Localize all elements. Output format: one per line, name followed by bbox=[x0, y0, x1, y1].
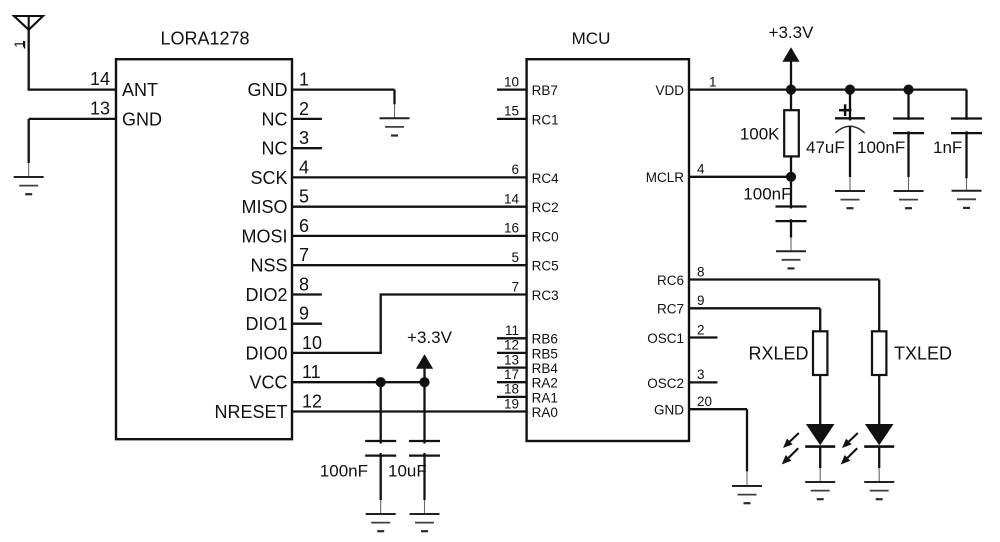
capacitor 1nF plates bbox=[951, 119, 982, 134]
MCU pin name RB7 (10) bbox=[532, 83, 558, 98]
svg-text:10: 10 bbox=[504, 74, 519, 89]
svg-text:RB6: RB6 bbox=[532, 332, 558, 347]
svg-text:3: 3 bbox=[697, 367, 705, 382]
wire MISO to RC2 bbox=[292, 206, 527, 208]
LORA pin name MOSI (6) bbox=[241, 226, 287, 246]
MCU pin number 19 bbox=[504, 396, 519, 411]
MCU pin name OSC2 (3) bbox=[647, 376, 684, 391]
svg-text:MCLR: MCLR bbox=[646, 170, 685, 185]
MCU pin number 4 bbox=[697, 162, 705, 177]
LORA pin number 4 bbox=[299, 157, 309, 177]
svg-text:+3.3V: +3.3V bbox=[407, 328, 453, 347]
MCU pin number 8 bbox=[697, 264, 705, 279]
LORA pin name DIO1 (9) bbox=[245, 314, 287, 334]
MCU pin name GND (20) bbox=[654, 403, 684, 418]
lead 10uF to ground bbox=[423, 453, 425, 514]
wire NSS to RC5 bbox=[292, 264, 527, 266]
value label 100nF (MCLR) bbox=[743, 184, 791, 203]
resistor R 100K bbox=[784, 90, 799, 177]
value label TXLED bbox=[894, 343, 952, 363]
LORA pin name MISO (5) bbox=[241, 197, 287, 217]
svg-text:1: 1 bbox=[709, 74, 717, 89]
LORA pin name GND (13) bbox=[122, 109, 162, 129]
lead MCLR to 100nF cap bbox=[790, 177, 792, 209]
junction VCC/100nF bbox=[376, 377, 386, 387]
svg-text:17: 17 bbox=[504, 367, 519, 382]
svg-text:RC5: RC5 bbox=[532, 259, 559, 274]
LORA pin name ANT bbox=[122, 80, 158, 100]
value label 47uF bbox=[806, 138, 845, 157]
value label 100K bbox=[740, 125, 780, 144]
MCU pin number 16 bbox=[504, 221, 519, 236]
resistor RXLED current-limit bbox=[813, 331, 827, 375]
LED TXLED bbox=[841, 375, 895, 482]
junction MCLR bbox=[786, 172, 796, 182]
svg-text:3: 3 bbox=[299, 128, 309, 148]
svg-text:GND: GND bbox=[654, 403, 684, 418]
svg-text:12: 12 bbox=[302, 392, 322, 412]
MCU pin number 6 bbox=[511, 162, 519, 177]
stub MCU pin 13 RB4 bbox=[497, 366, 527, 368]
LORA pin number 10 bbox=[302, 333, 322, 353]
lead 100nF rail to ground bbox=[907, 131, 909, 191]
MCU pin number 7 bbox=[511, 279, 519, 294]
MCU pin number 12 bbox=[504, 338, 519, 353]
wire RC7 to RXLED resistor bbox=[689, 308, 820, 331]
svg-text:9: 9 bbox=[299, 304, 309, 324]
svg-text:RXLED: RXLED bbox=[748, 343, 808, 363]
svg-text:NSS: NSS bbox=[250, 256, 287, 276]
stub MCU pin 3 OSC2 bbox=[689, 381, 718, 383]
wire LORA GND pin 13 to ground bbox=[29, 119, 116, 177]
svg-text:8: 8 bbox=[697, 264, 705, 279]
MCU pin number 2 bbox=[697, 322, 705, 337]
svg-text:13: 13 bbox=[90, 99, 110, 119]
MCU pin name RC1 (15) bbox=[532, 112, 559, 127]
LORA pin number 9 bbox=[299, 304, 309, 324]
wire MOSI to RC0 bbox=[292, 235, 527, 237]
svg-text:2: 2 bbox=[697, 322, 705, 337]
LORA pin number 6 bbox=[299, 216, 309, 236]
resistor TXLED current-limit bbox=[872, 331, 886, 375]
LORA pin name DIO0 (10) bbox=[245, 343, 287, 363]
svg-text:100nF: 100nF bbox=[857, 138, 905, 157]
LORA pin number 2 bbox=[299, 99, 309, 119]
IC MCU body bbox=[527, 59, 689, 441]
svg-text:RC0: RC0 bbox=[532, 229, 559, 244]
svg-text:RB4: RB4 bbox=[532, 361, 559, 376]
stub MCU pin 12 RB5 bbox=[497, 352, 527, 354]
LORA pin name NRESET (12) bbox=[214, 402, 287, 422]
svg-text:NRESET: NRESET bbox=[214, 402, 287, 422]
junction VDD/47uF bbox=[845, 85, 855, 95]
svg-text:MOSI: MOSI bbox=[241, 226, 287, 246]
wire DIO0 to RC3 bbox=[292, 295, 527, 355]
LORA pin name NSS (7) bbox=[250, 256, 287, 276]
wire MCU GND pin 20 to ground bbox=[689, 409, 747, 486]
MCU pin name RA0 (19) bbox=[532, 405, 558, 420]
svg-text:14: 14 bbox=[90, 69, 110, 89]
MCU pin name RC2 (14) bbox=[532, 200, 559, 215]
LORA pin number 11 bbox=[302, 362, 321, 382]
lead VCC to 10uF bbox=[423, 382, 425, 443]
capacitor 100nF (MCLR) bbox=[776, 207, 807, 222]
svg-text:13: 13 bbox=[504, 352, 519, 367]
svg-text:RC3: RC3 bbox=[532, 288, 559, 303]
MCU pin number 10 bbox=[504, 74, 519, 89]
svg-text:DIO0: DIO0 bbox=[245, 343, 287, 363]
capacitor 100nF (VCC decoupling) bbox=[365, 441, 396, 456]
svg-text:RB5: RB5 bbox=[532, 346, 558, 361]
ground (1nF) bbox=[952, 191, 982, 208]
LORA pin number 12 bbox=[302, 392, 322, 412]
ground (47uF) bbox=[835, 191, 865, 208]
svg-text:11: 11 bbox=[505, 323, 519, 338]
svg-text:4: 4 bbox=[697, 162, 705, 177]
svg-text:RA1: RA1 bbox=[532, 390, 558, 405]
svg-text:5: 5 bbox=[299, 187, 309, 207]
power +3.3V (VDD rail) bbox=[769, 23, 815, 62]
stub LORA pin 8 DIO2 bbox=[292, 293, 322, 295]
svg-text:20: 20 bbox=[697, 394, 712, 409]
svg-text:16: 16 bbox=[504, 221, 519, 236]
svg-text:100K: 100K bbox=[740, 125, 780, 144]
MCU pin number 15 bbox=[504, 104, 519, 119]
svg-text:4: 4 bbox=[299, 157, 309, 177]
MCU pin name RC6 (8) bbox=[657, 273, 684, 288]
ground (100nF) bbox=[366, 514, 396, 531]
svg-text:OSC1: OSC1 bbox=[647, 331, 684, 346]
svg-text:MCU: MCU bbox=[572, 29, 611, 48]
ground (RXLED) bbox=[805, 482, 835, 499]
capacitor 100nF (VDD rail) bbox=[907, 90, 909, 120]
stub MCU pin 18 RA1 bbox=[497, 396, 527, 398]
value label 1nF bbox=[933, 138, 962, 157]
junction VCC/10uF bbox=[419, 377, 429, 387]
LORA pin number 8 bbox=[299, 275, 309, 295]
MCU pin number 1 bbox=[709, 74, 717, 89]
wire MCLR to 100K/100nF bbox=[689, 176, 791, 178]
value label 10uF bbox=[388, 462, 427, 481]
stub MCU pin 11 RB6 bbox=[497, 337, 527, 339]
LORA pin name NC (2) bbox=[262, 109, 288, 129]
MCU pin number 3 bbox=[697, 367, 705, 382]
svg-text:100nF: 100nF bbox=[743, 184, 791, 203]
svg-text:9: 9 bbox=[697, 293, 705, 308]
wire VDD rail bbox=[689, 90, 967, 120]
MCU pin name RC0 (16) bbox=[532, 229, 559, 244]
wire +3.3V arrow stem bbox=[423, 368, 425, 382]
MCU pin number 13 bbox=[504, 352, 519, 367]
svg-text:GND: GND bbox=[122, 109, 162, 129]
svg-text:7: 7 bbox=[299, 245, 309, 265]
MCU pin name RC3 (7) bbox=[532, 288, 559, 303]
svg-text:6: 6 bbox=[511, 162, 519, 177]
MCU pin number 18 bbox=[504, 382, 519, 397]
pin number 13 bbox=[90, 99, 110, 119]
MCU pin name MCLR (4) bbox=[646, 170, 685, 185]
wire NRESET to RA0 bbox=[292, 410, 527, 412]
MCU pin name RB4 (13) bbox=[532, 361, 559, 376]
MCU pin number 14 bbox=[504, 192, 520, 207]
svg-text:DIO2: DIO2 bbox=[245, 285, 287, 305]
LORA pin name DIO2 (8) bbox=[245, 285, 287, 305]
MCU pin name RC7 (9) bbox=[657, 302, 684, 317]
LORA pin name SCK (4) bbox=[250, 168, 287, 188]
svg-text:19: 19 bbox=[504, 396, 519, 411]
capacitor 100nF plates bbox=[893, 119, 924, 134]
stub MCU pin 15 RC1 bbox=[497, 118, 527, 120]
MCU pin name RB6 (11) bbox=[532, 332, 558, 347]
LORA pin name GND (1) bbox=[248, 80, 288, 100]
svg-text:GND: GND bbox=[248, 80, 288, 100]
svg-text:LORA1278: LORA1278 bbox=[160, 29, 249, 49]
antenna pin number 1 (rotated) bbox=[11, 40, 27, 48]
value label RXLED bbox=[748, 343, 808, 363]
MCU pin name RB5 (12) bbox=[532, 346, 558, 361]
MCU pin name RA1 (18) bbox=[532, 390, 558, 405]
svg-text:SCK: SCK bbox=[250, 168, 287, 188]
lead 1nF to ground bbox=[965, 131, 967, 190]
stub MCU pin 2 OSC1 bbox=[689, 336, 718, 338]
svg-text:1nF: 1nF bbox=[933, 138, 962, 157]
stub LORA pin 3 NC bbox=[292, 147, 322, 149]
svg-text:RC4: RC4 bbox=[532, 171, 559, 186]
svg-text:8: 8 bbox=[299, 275, 309, 295]
MCU pin name RC4 (6) bbox=[532, 171, 559, 186]
MCU pin name RA2 (17) bbox=[532, 376, 558, 391]
LORA pin name NC (3) bbox=[262, 139, 288, 159]
MCU pin number 9 bbox=[697, 293, 705, 308]
svg-text:1: 1 bbox=[299, 70, 309, 90]
svg-text:RB7: RB7 bbox=[532, 83, 558, 98]
wire SCK to RC4 bbox=[292, 176, 527, 178]
junction VDD/100K bbox=[786, 85, 796, 95]
svg-text:47uF: 47uF bbox=[806, 138, 845, 157]
svg-text:RC6: RC6 bbox=[657, 273, 684, 288]
stub LORA pin 2 NC bbox=[292, 118, 322, 120]
wire VCC (LORA pin 11) bbox=[292, 381, 425, 383]
ground (MCLR cap) bbox=[776, 251, 806, 268]
wire antenna to LORA ANT pin 14 bbox=[28, 29, 116, 90]
capacitor 10uF (VCC decoupling) bbox=[409, 441, 440, 456]
ground (10uF) bbox=[410, 514, 440, 531]
ground (rail 100nF) bbox=[894, 191, 924, 208]
capacitor 47uF (polarized) bbox=[835, 90, 865, 191]
LORA pin number 7 bbox=[299, 245, 309, 265]
MCU pin name VDD (1) bbox=[655, 83, 684, 98]
MCU pin name RC5 (5) bbox=[532, 259, 559, 274]
antenna bbox=[14, 16, 43, 30]
svg-text:VCC: VCC bbox=[249, 373, 287, 393]
ground (MCU GND) bbox=[732, 486, 762, 503]
svg-text:NC: NC bbox=[262, 109, 288, 129]
svg-text:+3.3V: +3.3V bbox=[769, 23, 815, 42]
MCU pin name OSC1 (2) bbox=[647, 331, 684, 346]
LORA pin number 3 bbox=[299, 128, 309, 148]
svg-text:14: 14 bbox=[504, 192, 520, 207]
LORA pin name VCC (11) bbox=[249, 373, 287, 393]
svg-text:5: 5 bbox=[511, 250, 519, 265]
lead 100nF (MCLR) to ground bbox=[790, 219, 792, 251]
ground (antenna GND) bbox=[14, 177, 44, 194]
svg-text:RA0: RA0 bbox=[532, 405, 558, 420]
value label 100nF (rail) bbox=[857, 138, 905, 157]
stub LORA pin 9 DIO1 bbox=[292, 323, 322, 325]
svg-text:RC2: RC2 bbox=[532, 200, 559, 215]
svg-text:10: 10 bbox=[302, 333, 322, 353]
ground (TXLED) bbox=[864, 482, 894, 499]
lead 100nF to ground bbox=[380, 453, 382, 514]
svg-text:11: 11 bbox=[302, 362, 321, 382]
svg-text:RA2: RA2 bbox=[532, 376, 558, 391]
svg-text:2: 2 bbox=[299, 99, 309, 119]
MCU pin number 17 bbox=[504, 367, 519, 382]
svg-text:RC1: RC1 bbox=[532, 112, 559, 127]
svg-text:MISO: MISO bbox=[241, 197, 287, 217]
svg-text:DIO1: DIO1 bbox=[245, 314, 287, 334]
svg-text:10uF: 10uF bbox=[388, 462, 427, 481]
svg-text:12: 12 bbox=[504, 338, 519, 353]
value label 100nF bbox=[320, 462, 368, 481]
lead VCC to 100nF bbox=[380, 382, 382, 443]
junction VDD/100nF bbox=[903, 85, 913, 95]
svg-text:NC: NC bbox=[262, 139, 288, 159]
stub MCU pin 17 RA2 bbox=[497, 381, 527, 383]
label LORA1278 bbox=[160, 29, 249, 49]
svg-text:RC7: RC7 bbox=[657, 302, 684, 317]
LORA pin number 1 bbox=[299, 70, 309, 90]
power +3.3V (VCC rail) bbox=[407, 328, 453, 369]
svg-text:OSC2: OSC2 bbox=[647, 376, 684, 391]
wire +3.3V arrow stem (VDD) bbox=[790, 61, 792, 90]
svg-text:TXLED: TXLED bbox=[894, 343, 952, 363]
MCU pin number 11 bbox=[505, 323, 519, 338]
LED RXLED bbox=[782, 375, 836, 482]
label MCU bbox=[572, 29, 611, 48]
wire RC6 to TXLED resistor bbox=[689, 280, 879, 332]
ground (LORA pin1 GND) bbox=[380, 118, 410, 135]
wire LORA GND pin 1 to ground bbox=[292, 90, 395, 119]
stub MCU pin 10 RB7 bbox=[497, 88, 527, 90]
MCU pin number 20 bbox=[697, 394, 712, 409]
svg-text:18: 18 bbox=[504, 382, 519, 397]
svg-text:VDD: VDD bbox=[655, 83, 684, 98]
pin number 14 bbox=[90, 69, 110, 89]
svg-text:100nF: 100nF bbox=[320, 462, 368, 481]
svg-text:ANT: ANT bbox=[122, 80, 158, 100]
svg-text:15: 15 bbox=[504, 104, 519, 119]
IC LORA1278 body bbox=[116, 59, 292, 439]
svg-text:7: 7 bbox=[511, 279, 519, 294]
LORA pin number 5 bbox=[299, 187, 309, 207]
MCU pin number 5 bbox=[511, 250, 519, 265]
svg-text:6: 6 bbox=[299, 216, 309, 236]
